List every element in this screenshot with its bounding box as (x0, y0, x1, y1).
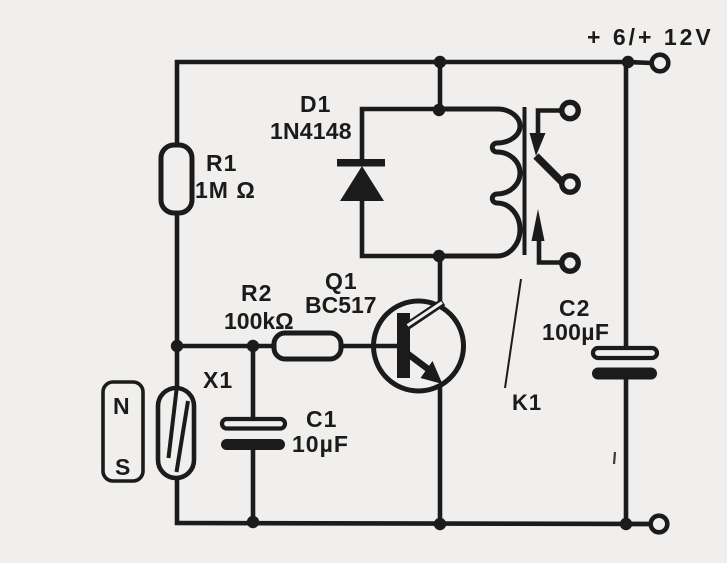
node: C1 ground junction (247, 516, 259, 528)
svg-text:10µF: 10µF (292, 431, 349, 457)
capacitor C2 top plate (593, 348, 657, 358)
svg-text:S: S (115, 454, 130, 480)
svg-text:C1: C1 (306, 406, 337, 432)
resistor R1 body (161, 145, 192, 213)
wire: base feed from left rail to R2 (177, 344, 276, 349)
resistor R2 body (274, 333, 341, 359)
svg-text:1M Ω: 1M Ω (195, 177, 256, 203)
svg-text:R2: R2 (241, 280, 272, 306)
wire: drop from top rail to relay/diode node (438, 62, 443, 110)
relay contact: NC terminal circle (562, 102, 578, 118)
node: relay coil top (433, 104, 445, 116)
transistor Q1 emitter line (408, 354, 432, 372)
svg-text:Q1: Q1 (325, 268, 358, 294)
svg-text:R1: R1 (206, 150, 237, 176)
node: left rail base junction (171, 340, 183, 352)
wire: NC contact elbow (538, 111, 561, 135)
relay K1 core bar (523, 107, 527, 255)
transistor Q1 emitter arrowhead (421, 361, 443, 384)
svg-text:+ 6/+ 12V: + 6/+ 12V (587, 24, 714, 50)
magnet body (103, 382, 143, 481)
wire: R2 output to base (339, 344, 397, 349)
capacitor C1 bottom plate (221, 439, 285, 450)
node: top rail to relay branch (434, 56, 446, 68)
wire: top rail stub to positive terminal (628, 62, 652, 63)
wire: left rail upper segment (175, 60, 180, 148)
relay armature bar (536, 156, 563, 183)
svg-text:X1: X1 (203, 367, 233, 393)
wire: left rail lower segment (175, 476, 180, 525)
svg-text:100µF: 100µF (542, 319, 609, 345)
svg-text:100kΩ: 100kΩ (224, 308, 294, 334)
relay arrow toward armature (down) (530, 133, 546, 156)
wire: NO contact elbow (539, 240, 561, 263)
reed switch X1 upper blade (169, 390, 177, 458)
node: top rail to positive terminal (622, 56, 634, 68)
transistor Q1 circle (374, 301, 464, 391)
relay arrow from NO contact (up) (532, 209, 545, 241)
wire: C1 top lead (251, 346, 256, 421)
node: C1 top junction (247, 340, 259, 352)
svg-text:C2: C2 (559, 295, 590, 321)
terminal: ground (651, 516, 668, 533)
wire: bottom rail stub to terminal (626, 522, 651, 527)
wire: diode-relay bottom link (362, 199, 498, 256)
transistor Q1 base bar (397, 313, 410, 378)
node: right rail ground junction (620, 518, 632, 530)
svg-text:BC517: BC517 (305, 292, 377, 318)
wire: top supply rail (175, 60, 628, 65)
leader line to K1 label (505, 279, 521, 388)
terminal: +V supply (652, 55, 669, 72)
reed switch X1 lower blade (177, 401, 189, 472)
wire: diode-relay top link (362, 109, 498, 162)
wire: left rail middle segment (175, 210, 180, 390)
wire: right rail upper segment (624, 62, 629, 350)
relay contact: NO terminal circle (562, 255, 578, 271)
svg-text:K1: K1 (512, 390, 542, 415)
wire: bottom ground rail (175, 523, 651, 524)
wire: C1 bottom lead (251, 448, 256, 523)
transistor Q1 collector double stroke (406, 302, 443, 327)
capacitor C1 top plate (222, 419, 285, 429)
wire: collector drop from relay node (438, 256, 443, 305)
svg-text:N: N (113, 393, 130, 419)
capacitor C2 bottom plate (592, 368, 657, 380)
wire: right rail lower segment (624, 378, 629, 524)
node: emitter ground junction (434, 518, 446, 530)
diode D1 cathode bar (337, 159, 385, 167)
relay contact: common terminal circle (562, 176, 578, 192)
svg-text:1N4148: 1N4148 (270, 118, 352, 144)
stray scan mark near right rail (614, 452, 615, 464)
relay K1 coil (439, 109, 520, 256)
wire: emitter drop to ground rail (438, 385, 443, 524)
node: relay coil bottom / collector (433, 250, 445, 262)
svg-text:D1: D1 (300, 91, 331, 117)
reed switch X1 capsule (158, 388, 194, 478)
diode D1 anode triangle (340, 166, 384, 201)
